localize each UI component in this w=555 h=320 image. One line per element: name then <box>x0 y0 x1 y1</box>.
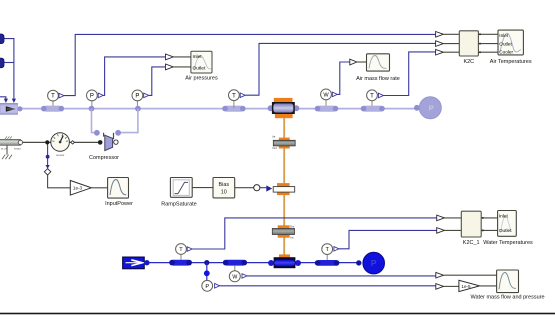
wire diamond to valve <box>260 185 272 191</box>
Water plot input arrow 2 <box>436 284 459 290</box>
label RampSaturate <box>161 201 196 207</box>
svg-text:InputPower: InputPower <box>105 201 133 207</box>
sensor P3 <box>202 280 213 291</box>
svg-text:Outlet: Outlet <box>499 42 512 47</box>
svg-text:Air mass flow rate: Air mass flow rate <box>356 76 400 82</box>
pipe air 2 <box>222 106 245 112</box>
wire T5 to K2C_1 input2 <box>339 230 437 248</box>
plot block InputPower <box>108 178 129 199</box>
wire P3 to Water mass flow gain <box>220 285 436 287</box>
sensor T3 <box>367 90 378 101</box>
plot block Air Temperatures <box>498 30 523 55</box>
heat exchanger HX1 (cooler) <box>268 98 300 118</box>
label Air Temperatures <box>490 59 532 65</box>
wire P2 to Air pressures outlet <box>149 67 166 96</box>
Air pressures input arrow 1 <box>166 54 191 60</box>
svg-text:W: W <box>232 275 237 281</box>
label K2C <box>463 59 474 65</box>
compressor shaft line <box>22 141 99 143</box>
fan inlet port <box>414 105 420 111</box>
wire speed signal down to diamond <box>46 145 50 169</box>
pipe water 1 <box>169 260 192 266</box>
air junction under P2 <box>135 106 141 112</box>
wire compressor suction <box>92 109 95 133</box>
sensor T4 <box>176 244 187 255</box>
K2C input arrow 1 <box>436 32 460 38</box>
sensor W2 stub <box>325 100 327 106</box>
sensor P1 stub <box>91 101 93 106</box>
sensor T4 stub <box>180 254 182 260</box>
sensor P1 <box>87 90 98 101</box>
water source block <box>123 257 145 269</box>
Air pressures input arrow 2 <box>166 64 191 70</box>
sensor T1 stub <box>52 101 54 106</box>
wire T3 to K2C input3 <box>383 52 435 96</box>
K2C input arrow 3 <box>436 49 460 55</box>
svg-text:K2C_1: K2C_1 <box>463 240 480 246</box>
pipe air 1 <box>41 106 64 112</box>
svg-text:Inlet: Inlet <box>499 214 509 219</box>
wire gain to plot <box>480 285 497 287</box>
sensor W4 stub <box>234 266 236 271</box>
svg-text:Inlet: Inlet <box>499 33 509 38</box>
compressor suction port <box>94 130 100 136</box>
svg-text:T: T <box>232 93 236 99</box>
water junction node <box>204 260 209 265</box>
svg-text:Air Temperatures: Air Temperatures <box>490 59 532 65</box>
wire main air line <box>21 108 418 110</box>
gain 1e-5 <box>459 280 480 291</box>
sensor T5 output arrow <box>334 247 339 252</box>
label Water mass flow and pressure <box>470 295 544 301</box>
air flow source block <box>0 103 18 114</box>
source block RampSaturate <box>170 178 192 198</box>
sensor T2 output arrow <box>240 93 245 98</box>
plot block Water Temperatures <box>498 211 517 237</box>
input block 1 (cut at edge) <box>0 34 4 44</box>
heat component 2 <box>272 224 294 239</box>
svg-text:1e-5: 1e-5 <box>461 284 471 289</box>
bottom frame line <box>0 313 555 315</box>
shaft diamond flange <box>71 141 75 144</box>
svg-text:sensor: sensor <box>56 153 64 157</box>
compressor pipe stubs <box>104 133 114 139</box>
plot block Water mass flow and pressure <box>497 270 519 293</box>
pump inlet port <box>356 260 361 265</box>
gain 1e-3 <box>70 181 91 196</box>
svg-text:T: T <box>370 93 374 99</box>
sensor P3 output arrow <box>215 284 220 289</box>
svg-text:Int: Int <box>272 135 275 139</box>
wire input signal 1 from block TIn <box>4 39 16 103</box>
sensor W2 output arrow <box>332 92 337 97</box>
label K2C_1 <box>463 240 480 246</box>
svg-text:Water mass flow and pressure: Water mass flow and pressure <box>470 295 544 301</box>
svg-text:Water Temperatures: Water Temperatures <box>483 240 533 246</box>
svg-text:T: T <box>51 94 55 100</box>
wire RampSaturate to Bias <box>192 187 213 189</box>
sensor P2 <box>132 90 143 101</box>
svg-text:Cooler: Cooler <box>499 50 513 55</box>
sensor W4 <box>229 271 240 282</box>
label Air mass flow rate <box>356 76 400 82</box>
svg-text:T: T <box>325 247 329 253</box>
valve signal diamond <box>254 185 260 191</box>
fan <box>419 97 441 119</box>
compressor shaft flange <box>98 140 103 145</box>
heat component 1 <box>272 135 295 151</box>
sensor T1 output arrow <box>59 93 64 98</box>
wire input signal 2 from block pIn <box>4 62 14 64</box>
svg-text:Compressor: Compressor <box>89 155 119 161</box>
sensor T4 output arrow <box>187 247 192 252</box>
water source port <box>144 260 149 265</box>
pump <box>363 252 384 273</box>
wire gain to InputPower <box>91 187 107 189</box>
wire P1 to Air pressures inlet <box>103 57 165 96</box>
wire input signal 3 from left edge <box>0 97 8 103</box>
K2C_1 input arrow 2 <box>437 228 462 234</box>
sensor T2 stub <box>233 101 235 108</box>
wire Bias to valve diamond <box>235 187 254 189</box>
compressor body <box>105 135 113 150</box>
wire T1 to K2C input1 <box>64 34 436 95</box>
svg-text:P: P <box>90 94 94 100</box>
wires K2C to Air Temperatures <box>478 33 498 53</box>
wire thermal vertical line <box>283 118 285 255</box>
svg-text:Bias: Bias <box>219 182 230 188</box>
input block 2 (cut at edge) <box>0 58 4 68</box>
svg-text:Out: Out <box>272 146 277 150</box>
wire T2 to K2C input2 <box>245 43 435 95</box>
sensor P1 output arrow <box>98 93 103 98</box>
ground <box>2 145 12 159</box>
heat exchanger HX2 (heater) <box>268 254 301 268</box>
svg-text:exact: exact <box>14 146 21 150</box>
svg-text:W: W <box>323 93 329 99</box>
svg-text:P: P <box>205 284 209 290</box>
sensor T3 stub <box>371 101 373 106</box>
wire W4 to Water mass flow block <box>247 275 436 277</box>
sensor W2 <box>321 89 332 100</box>
sensor W4 output arrow <box>242 274 247 279</box>
wire W2 to Air mass flow rate <box>337 62 349 94</box>
sensor T5 <box>322 244 333 255</box>
air junction under P1 <box>89 106 95 112</box>
label Water Temperatures <box>483 240 533 246</box>
svg-text:Air pressures: Air pressures <box>185 76 218 82</box>
sensor T3 output arrow <box>378 93 383 98</box>
water junction port dot <box>204 270 210 276</box>
compressor right shaft circle <box>114 140 118 144</box>
pipe air 3 <box>315 106 339 112</box>
svg-text:RampSaturate: RampSaturate <box>161 201 196 207</box>
wire diamond to gain <box>48 175 71 188</box>
wires K2C_1 to Water Temperatures <box>481 217 497 232</box>
shaft junction node <box>45 140 49 144</box>
svg-text:Int: Int <box>290 236 293 240</box>
wire junction down to P3 <box>206 263 208 281</box>
compressor discharge port <box>115 130 121 136</box>
sensor T5 stub <box>326 254 328 260</box>
speed source cylinder <box>0 136 23 150</box>
block K2C <box>459 31 478 56</box>
sensor T2 <box>229 90 240 101</box>
block K2C_1 <box>461 211 481 237</box>
svg-text:Ext: Ext <box>290 224 294 228</box>
svg-text:Inlet: Inlet <box>193 54 203 60</box>
expansion valve <box>273 183 295 195</box>
svg-text:1e-3: 1e-3 <box>73 186 83 191</box>
pipe air 4 <box>361 106 385 112</box>
pipe water 3 <box>315 260 340 266</box>
sensor P2 output arrow <box>144 93 149 98</box>
svg-text:P: P <box>135 94 139 100</box>
wire compressor discharge <box>121 109 138 133</box>
svg-text:T: T <box>179 247 183 253</box>
air source outlet port <box>17 106 22 111</box>
sensor P2 stub <box>136 101 138 106</box>
wire main water line <box>148 262 360 264</box>
K2C_1 input arrow 1 <box>437 215 462 221</box>
svg-text:Outlet: Outlet <box>499 228 512 233</box>
svg-text:10: 10 <box>221 190 227 196</box>
wire T4 to K2C_1 input1 <box>192 218 436 249</box>
block Bias 10 <box>213 178 235 198</box>
svg-text:P: P <box>429 104 434 113</box>
sensor T1 <box>48 90 59 101</box>
plot block Air pressures <box>191 51 212 73</box>
svg-text:Outlet: Outlet <box>193 65 206 71</box>
label Air pressures <box>185 76 218 82</box>
label InputPower <box>105 201 133 207</box>
speed gauge sensor <box>51 133 70 157</box>
Air mass flow rate input arrow <box>350 59 367 65</box>
svg-text:K2C: K2C <box>463 59 474 65</box>
label Compressor <box>89 155 119 161</box>
svg-text:P: P <box>371 258 377 268</box>
pipe water 2 <box>223 260 247 266</box>
Water plot input arrow 1 <box>436 272 497 278</box>
plot block Air mass flow rate <box>367 54 390 71</box>
K2C input arrow 2 <box>436 41 460 47</box>
speed demux diamond <box>44 169 50 175</box>
